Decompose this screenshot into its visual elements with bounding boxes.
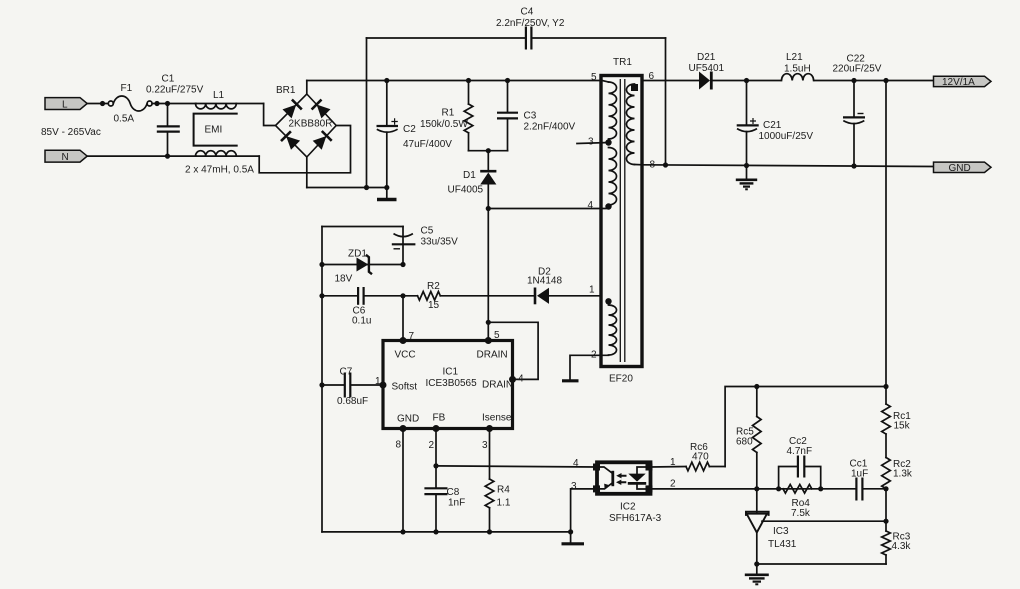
svg-text:0.5A: 0.5A [114, 114, 135, 125]
svg-text:85V - 265Vac: 85V - 265Vac [41, 127, 101, 138]
svg-text:UF4005: UF4005 [448, 185, 484, 196]
phototransistor [611, 471, 614, 486]
svg-text:DRAIN: DRAIN [477, 350, 508, 361]
secondary gnd rail [642, 165, 934, 167]
ground (bar) controller [562, 532, 585, 544]
svg-text:D21: D21 [697, 52, 716, 63]
svg-text:220uF/25V: 220uF/25V [833, 64, 882, 75]
resistor Rc5 [736, 387, 761, 489]
resistor Rc3 [882, 531, 912, 564]
node VCC [400, 293, 405, 298]
resistor R1 [420, 78, 473, 151]
node C1 bottom [165, 154, 170, 159]
left vertical (aux gnd) [321, 227, 323, 532]
svg-text:FB: FB [433, 413, 446, 424]
svg-text:F1: F1 [121, 83, 133, 94]
capacitor C6 [322, 287, 403, 327]
svg-text:TR1: TR1 [613, 57, 632, 68]
svg-text:1: 1 [670, 457, 676, 468]
feedback divider vertical [885, 81, 887, 405]
svg-text:2: 2 [670, 479, 676, 490]
svg-text:18V: 18V [335, 274, 353, 285]
EMI box [194, 114, 238, 146]
svg-text:GND: GND [397, 414, 419, 425]
svg-text:VCC: VCC [395, 350, 416, 361]
wire FB to opto pin4 [436, 466, 597, 467]
svg-text:4: 4 [518, 374, 524, 385]
wire Rc6 up to fb line [725, 387, 886, 467]
svg-text:0.22uF/275V: 0.22uF/275V [146, 85, 204, 96]
wire opto pin2 line [651, 488, 857, 490]
node C5/ZD1 [400, 262, 405, 267]
node drain tee [486, 320, 491, 325]
node Rc5 top [754, 384, 759, 389]
phase dot secondary (square) [631, 84, 638, 91]
+ rail to transformer pin5 [307, 80, 601, 82]
svg-text:C2: C2 [403, 124, 416, 135]
wire choke to bridge right [259, 126, 350, 173]
svg-text:4: 4 [588, 200, 594, 211]
diode bottom-right [313, 136, 327, 150]
pin 4 DRAIN [509, 376, 516, 383]
node feedback top [883, 78, 888, 83]
node C6 line left [319, 293, 324, 298]
svg-text:ICE3B0565: ICE3B0565 [426, 378, 478, 389]
svg-text:1.1: 1.1 [497, 498, 511, 509]
svg-text:4.7nF: 4.7nF [787, 446, 813, 457]
capacitor C2 [377, 78, 453, 190]
wire L to fuse [87, 103, 108, 105]
connector N [45, 150, 87, 163]
svg-text:1N4148: 1N4148 [527, 276, 562, 287]
node fb line right [883, 384, 888, 389]
svg-text:3: 3 [482, 440, 488, 451]
inductor L1 [196, 90, 264, 109]
aux winding [609, 305, 617, 355]
capacitor C1 [146, 74, 204, 157]
svg-text:2: 2 [429, 440, 435, 451]
wire VCC top [322, 226, 403, 228]
svg-text:L: L [62, 99, 68, 110]
diode bottom-left [286, 136, 300, 150]
svg-text:4: 4 [573, 458, 579, 469]
wire VCC to pin7 [402, 296, 404, 341]
connector GND [934, 162, 992, 174]
resistor Rc2 [882, 458, 913, 489]
inductor L1b (lower choke winding) [185, 151, 259, 176]
controller ground rail [322, 531, 571, 533]
wire R1/C3 node [469, 150, 508, 152]
svg-text:ZD1: ZD1 [348, 249, 367, 260]
svg-text:IC1: IC1 [443, 367, 459, 378]
LED [637, 467, 649, 474]
svg-text:C3: C3 [524, 111, 537, 122]
node C21 bottom [744, 163, 749, 168]
wire pin 2 [570, 355, 609, 379]
phase dot aux [605, 298, 611, 304]
wire L1 to bridge [264, 104, 276, 126]
diode D21 [689, 52, 781, 90]
node ref [883, 519, 888, 524]
svg-text:DRAIN: DRAIN [482, 380, 513, 391]
svg-text:C1: C1 [162, 74, 175, 85]
capacitor Cc2 with resistor Ro4 [776, 436, 823, 519]
bridge rectifier BR1 [276, 85, 337, 157]
core lines [619, 79, 621, 362]
svg-text:R1: R1 [442, 108, 455, 119]
secondary + rail [642, 80, 699, 82]
svg-text:5: 5 [494, 330, 500, 341]
svg-text:UF5401: UF5401 [689, 63, 725, 74]
node C22 top [851, 78, 856, 83]
svg-text:3: 3 [571, 481, 577, 492]
svg-text:1: 1 [589, 285, 595, 296]
capacitor C3 [497, 78, 576, 151]
svg-text:C21: C21 [763, 120, 782, 131]
svg-text:0.68uF: 0.68uF [337, 396, 368, 407]
resistor R4 [485, 479, 511, 532]
svg-text:15: 15 [428, 300, 440, 311]
optocoupler IC2 SFH617A-3 [593, 462, 662, 524]
inductor L21 [782, 52, 934, 81]
svg-text:1uF: 1uF [851, 469, 868, 480]
svg-text:2 x 47mH, 0.5A: 2 x 47mH, 0.5A [185, 165, 254, 176]
ground (earth) below C21 [736, 166, 757, 190]
pin 2 FB [433, 425, 440, 432]
svg-text:SFH617A-3: SFH617A-3 [609, 513, 662, 524]
wire fuse to L1 [152, 103, 196, 105]
capacitor C7 [319, 367, 383, 408]
node Cc1/Rc2 [883, 486, 888, 491]
op-amp U1 IC1 ICE3B0565 box [383, 341, 513, 429]
resistor Rc6 [686, 442, 725, 471]
node C1 top [165, 101, 170, 106]
ground (bar) below C2 [377, 188, 397, 200]
resistor Rc1 [882, 404, 912, 458]
svg-text:IC3: IC3 [773, 526, 789, 537]
diode top-right [317, 105, 331, 119]
svg-text:C8: C8 [447, 487, 460, 498]
svg-text:1nF: 1nF [448, 498, 465, 509]
wire pin 3 stub [577, 143, 609, 144]
capacitor C5 [392, 226, 458, 265]
capacitor C21 [737, 81, 814, 167]
wire tee to DRAIN pin 4 [488, 322, 538, 379]
fuse F1 [108, 83, 152, 125]
svg-text:EF20: EF20 [609, 374, 633, 385]
svg-text:2KBB80R: 2KBB80R [289, 119, 333, 130]
svg-text:Softst: Softst [392, 382, 418, 393]
transformer TR1 [588, 57, 656, 385]
wire to transformer pin 4 [488, 208, 606, 210]
wire opto pin1 to Rc6 [651, 466, 687, 469]
svg-text:D1: D1 [463, 170, 476, 181]
diode top-left [283, 105, 297, 119]
svg-text:5: 5 [591, 72, 597, 83]
svg-text:L1: L1 [213, 90, 225, 101]
wire divider mid [885, 489, 887, 531]
shunt regulator IC3 TL431 [746, 489, 797, 564]
svg-text:EMI: EMI [205, 125, 223, 136]
node above D1 [486, 148, 491, 153]
wire FB pin down [435, 429, 437, 488]
connector 12V/1A [934, 76, 992, 88]
svg-text:3: 3 [588, 137, 594, 148]
svg-text:N: N [62, 152, 69, 163]
pin 5 DRAIN [485, 337, 492, 344]
drain vertical wire [487, 209, 489, 341]
pin 8 GND [400, 425, 407, 432]
svg-text:Isense: Isense [482, 413, 512, 424]
wire GND pin down [402, 429, 404, 532]
diode D2 [527, 267, 601, 305]
wire divider bottom to TL431 [757, 563, 886, 565]
primary - rail [307, 187, 387, 189]
svg-text:12V/1A: 12V/1A [942, 77, 975, 88]
svg-text:150k/0.5W: 150k/0.5W [420, 119, 468, 130]
light arrows [619, 476, 627, 483]
wire Isense down [489, 429, 491, 480]
svg-text:0.1u: 0.1u [352, 316, 371, 327]
pin 7 VCC [400, 337, 407, 344]
svg-text:680: 680 [736, 437, 753, 448]
svg-text:33u/35V: 33u/35V [421, 237, 459, 248]
node D1 to pin4 [486, 206, 491, 211]
pin 1 Softst [380, 382, 387, 389]
node Rc5 bottom [754, 486, 759, 491]
node after fuse [154, 101, 159, 106]
svg-text:47uF/400V: 47uF/400V [403, 139, 452, 150]
wire TL431 ref [762, 520, 886, 522]
svg-text:2.2nF/250V, Y2: 2.2nF/250V, Y2 [496, 18, 565, 29]
svg-text:C4: C4 [521, 7, 534, 18]
node FB branch [433, 463, 438, 468]
svg-text:4.3k: 4.3k [892, 541, 912, 552]
svg-text:GND: GND [949, 163, 971, 174]
tap dot pin4 [605, 203, 611, 209]
ground (earth) below TL431 [745, 564, 769, 584]
ground (bar) pin 2 [562, 379, 579, 382]
svg-text:1.5uH: 1.5uH [784, 64, 811, 75]
svg-text:R2: R2 [427, 281, 440, 292]
connector L [45, 98, 87, 111]
node at L input [100, 101, 105, 106]
node TL431 bottom [754, 561, 759, 566]
capacitor C22 [833, 54, 882, 167]
svg-text:C7: C7 [340, 367, 353, 378]
wire N to choke [87, 155, 196, 157]
phase/tap dot pin3 [605, 139, 611, 145]
capacitor C8 [424, 487, 465, 532]
svg-text:L21: L21 [786, 52, 803, 63]
capacitor C4 (Y-cap) [364, 7, 668, 191]
wire opto pin3 [571, 489, 597, 532]
svg-text:1.3k: 1.3k [893, 469, 913, 480]
resistor R2 [403, 281, 534, 311]
node C22 bottom [851, 163, 856, 168]
svg-text:C5: C5 [421, 226, 434, 237]
wire bridge bottom [306, 157, 308, 188]
svg-text:IC2: IC2 [620, 502, 636, 513]
capacitor Cc1 [850, 459, 887, 501]
svg-text:TL431: TL431 [768, 539, 797, 550]
pin 3 Isense [486, 425, 493, 432]
node C21 top [744, 78, 749, 83]
primary winding upper [609, 82, 617, 139]
svg-text:R4: R4 [497, 485, 510, 496]
wire bridge top to + rail [306, 81, 308, 95]
svg-text:15k: 15k [894, 421, 911, 432]
svg-text:470: 470 [692, 452, 709, 463]
svg-text:2.2nF/400V: 2.2nF/400V [524, 122, 576, 133]
svg-text:8: 8 [396, 440, 402, 451]
secondary winding [627, 84, 635, 165]
zener ZD1 [322, 249, 403, 285]
diode D1 [448, 151, 497, 209]
svg-text:7: 7 [409, 331, 415, 342]
svg-text:1000uF/25V: 1000uF/25V [759, 131, 814, 142]
svg-text:7.5k: 7.5k [791, 508, 811, 519]
svg-text:BR1: BR1 [276, 85, 296, 96]
